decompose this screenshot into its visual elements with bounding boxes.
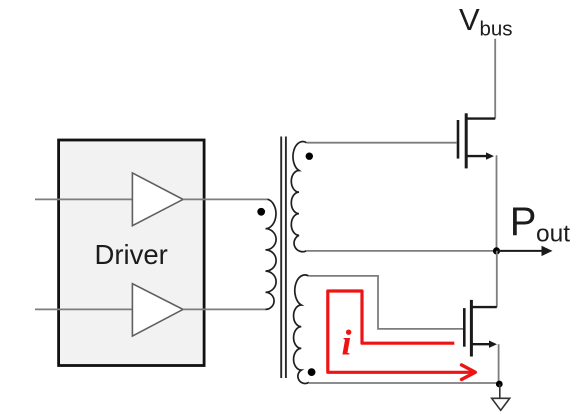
transistor Q2 gate bar	[463, 308, 466, 347]
node ground junction	[496, 381, 503, 388]
transformer T1 secondary top winding	[291, 142, 306, 252]
Pout output arrow	[497, 246, 553, 256]
transformer T1 secondary bottom winding	[294, 275, 309, 384]
wire input top	[35, 198, 132, 200]
node output junction	[493, 247, 500, 254]
wire Q1 gate lead	[430, 142, 457, 144]
transformer T1 primary winding	[266, 199, 277, 309]
transformer T1 core	[281, 137, 286, 379]
svg-text:i: i	[342, 323, 352, 363]
svg-text:V: V	[459, 2, 480, 37]
wire Q1 source down to output node	[495, 156, 498, 251]
buffer A1	[132, 173, 183, 226]
wire Q2 source down to ground node	[498, 344, 500, 383]
svg-text:out: out	[536, 221, 570, 248]
driver block U1	[59, 140, 205, 366]
transistor Q1 gate bar	[457, 120, 460, 159]
Vbus label	[459, 2, 513, 41]
red current arrowhead	[462, 365, 476, 380]
wire input bottom	[35, 308, 132, 310]
wire Pout line from secondary	[306, 250, 496, 252]
svg-text:Driver: Driver	[95, 239, 168, 270]
svg-text:bus: bus	[480, 18, 513, 41]
wire secondary bottom to Q2 gate	[309, 276, 464, 329]
buffer A2	[132, 284, 183, 336]
transistor Q1 channel bar	[465, 113, 468, 168]
primary dot	[257, 208, 265, 216]
ground	[492, 384, 510, 410]
transistor Q2 drain lead	[471, 306, 496, 308]
secondary top dot	[306, 153, 313, 160]
wire output node to Q2 drain	[496, 251, 498, 307]
transistor Q1 drain lead	[466, 117, 495, 119]
transistor Q1 source lead with arrow	[466, 152, 494, 159]
wire Vbus to Q1 drain	[494, 39, 496, 119]
transistor Q2 channel bar	[470, 300, 473, 357]
Pout label	[510, 200, 570, 247]
wire A1 output to primary	[183, 198, 268, 200]
current label i	[342, 323, 352, 363]
wire secondary top to Q1 gate	[307, 142, 431, 144]
secondary bottom dot	[308, 368, 316, 376]
wire secondary bottom to ground node	[309, 382, 499, 384]
transistor Q2 source lead with arrow	[471, 341, 497, 348]
driver label	[95, 239, 168, 270]
red current loop i	[328, 291, 472, 372]
svg-text:P: P	[510, 200, 537, 244]
wire A2 output to primary	[183, 308, 266, 310]
